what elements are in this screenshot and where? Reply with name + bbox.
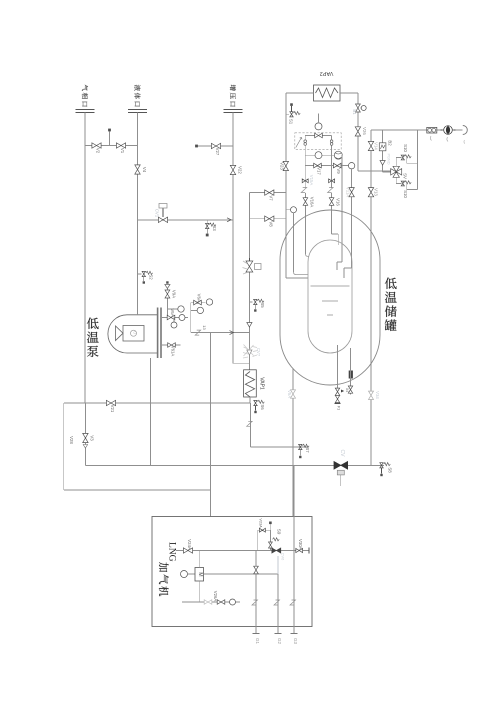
svg-text:V26A: V26A bbox=[213, 591, 218, 602]
svg-text:PGND: PGND bbox=[387, 154, 391, 165]
svg-text:V7: V7 bbox=[268, 195, 273, 201]
svg-text:VAP2: VAP2 bbox=[320, 70, 334, 76]
svg-text:B2: B2 bbox=[388, 140, 393, 146]
svg-text:G3: G3 bbox=[293, 638, 298, 645]
svg-text:V23: V23 bbox=[280, 162, 285, 170]
svg-text:SV: SV bbox=[403, 173, 408, 179]
svg-text:S2: S2 bbox=[149, 274, 154, 280]
svg-text:V13: V13 bbox=[374, 188, 379, 196]
svg-text:S3: S3 bbox=[212, 225, 217, 231]
svg-text:S10: S10 bbox=[403, 190, 408, 198]
svg-text:V6A: V6A bbox=[170, 308, 175, 316]
svg-text:V9: V9 bbox=[336, 168, 341, 174]
svg-text:V61A: V61A bbox=[171, 346, 176, 357]
svg-text:V6A: V6A bbox=[197, 294, 202, 302]
svg-text:LNG: LNG bbox=[167, 542, 177, 562]
svg-text:V26: V26 bbox=[362, 127, 367, 135]
svg-text:V27: V27 bbox=[215, 148, 220, 156]
svg-text:S10: S10 bbox=[403, 144, 408, 152]
svg-text:V21: V21 bbox=[110, 405, 115, 413]
svg-text:CV1: CV1 bbox=[155, 209, 160, 218]
svg-text:V30A: V30A bbox=[298, 539, 303, 550]
svg-text:CV6: CV6 bbox=[281, 553, 285, 560]
svg-text:V1: V1 bbox=[120, 148, 125, 154]
svg-text:F1: F1 bbox=[337, 406, 341, 410]
svg-text:V14: V14 bbox=[374, 142, 379, 150]
svg-text:V8: V8 bbox=[268, 221, 273, 227]
svg-text:S1: S1 bbox=[289, 119, 294, 125]
svg-text:CV7: CV7 bbox=[256, 348, 261, 357]
svg-text:V24A: V24A bbox=[187, 539, 192, 550]
svg-text:G2: G2 bbox=[277, 638, 282, 645]
svg-text:V15A: V15A bbox=[309, 175, 314, 186]
svg-text:V23A: V23A bbox=[259, 518, 263, 528]
svg-text:B1: B1 bbox=[352, 109, 357, 115]
svg-text:V11A: V11A bbox=[346, 187, 351, 197]
svg-text:V3: V3 bbox=[90, 435, 95, 441]
svg-text:X4: X4 bbox=[345, 388, 349, 392]
svg-text:S7: S7 bbox=[305, 447, 310, 453]
svg-text:V9A: V9A bbox=[171, 290, 176, 298]
svg-text:VAP1: VAP1 bbox=[259, 377, 265, 390]
svg-text:V5A: V5A bbox=[287, 390, 292, 398]
svg-text:V4: V4 bbox=[142, 167, 147, 173]
svg-text:S6: S6 bbox=[260, 404, 265, 410]
svg-text:13: 13 bbox=[202, 325, 207, 330]
svg-text:V16: V16 bbox=[336, 198, 341, 206]
svg-text:G1: G1 bbox=[255, 638, 260, 645]
svg-text:S5: S5 bbox=[260, 302, 265, 308]
svg-text:V2: V2 bbox=[96, 148, 101, 154]
svg-text:S8: S8 bbox=[388, 467, 393, 473]
svg-text:V22: V22 bbox=[238, 166, 243, 174]
svg-text:V16A: V16A bbox=[310, 197, 315, 208]
svg-text:M: M bbox=[197, 572, 203, 576]
svg-text:S9: S9 bbox=[277, 529, 282, 535]
svg-text:CV: CV bbox=[339, 450, 345, 458]
svg-text:V28: V28 bbox=[69, 436, 74, 444]
svg-text:V34: V34 bbox=[375, 391, 380, 399]
svg-text:V17: V17 bbox=[317, 167, 322, 175]
